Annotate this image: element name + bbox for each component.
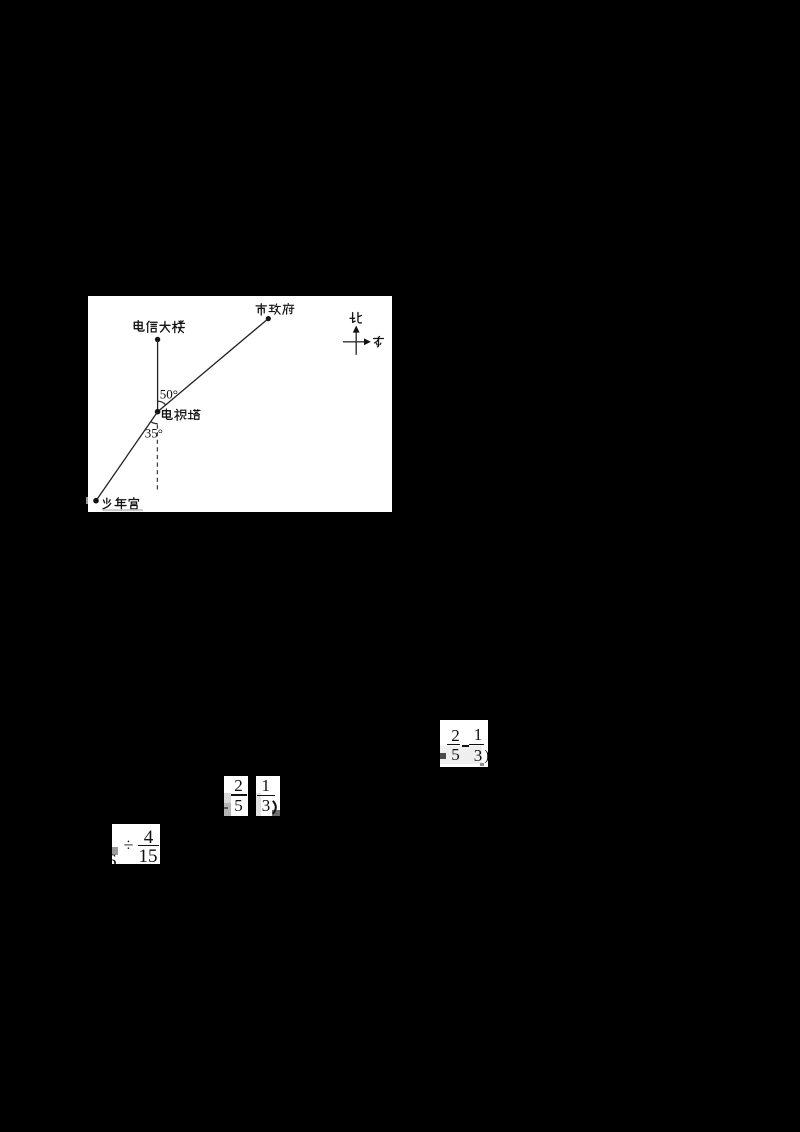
- denominator 5: [232, 797, 245, 814]
- wire vertical 电信大楼 to 电视塔: [157, 340, 159, 412]
- label 少年宫: [103, 498, 139, 510]
- node dot 市政府: [266, 316, 271, 321]
- minus sign: [462, 745, 469, 747]
- denominator 3: [260, 797, 273, 814]
- fraction bar: [231, 794, 247, 796]
- node dot 电信大楼: [155, 337, 160, 342]
- fraction box D: ÷ 4/15 bottom left: [112, 824, 160, 864]
- angle arc 50deg: [158, 401, 166, 405]
- numerator 1: [472, 726, 485, 743]
- dark mark left edge: [440, 753, 446, 759]
- faint underline below 少年宫: [103, 509, 143, 511]
- fraction bar: [138, 845, 159, 847]
- label 电视塔: [163, 409, 201, 420]
- compass north arrow: [353, 326, 360, 355]
- dashed south line below 电视塔: [156, 425, 158, 493]
- compass label 东: [374, 336, 384, 346]
- division sign: [122, 835, 136, 857]
- fraction bar 1/3: [469, 744, 485, 746]
- diagram panel (white): [88, 296, 392, 512]
- numerator 2: [449, 727, 462, 744]
- partial right paren: [272, 800, 280, 815]
- numerator 2: [232, 777, 245, 794]
- label 电信大楼: [134, 321, 184, 333]
- wire 电视塔 to 少年宫: [96, 412, 158, 501]
- gray square left: [112, 847, 118, 855]
- numerator 1: [259, 777, 272, 794]
- fraction box B: 2/5 middle: [224, 776, 248, 816]
- partial right paren: [484, 749, 489, 764]
- denominator 15: [138, 847, 158, 866]
- node dot 少年宫: [93, 498, 99, 504]
- fraction bar 2/5: [447, 744, 461, 746]
- dark gray block bottom right: [272, 810, 279, 817]
- wire 市政府 to 电视塔: [158, 319, 269, 412]
- label 市政府: [256, 303, 294, 315]
- compass label 北: [350, 312, 361, 322]
- angle arc 35deg: [151, 422, 158, 424]
- fraction bar: [257, 795, 275, 797]
- svg-text:50°: 50°: [160, 386, 178, 401]
- gray square bottom right: [480, 763, 484, 767]
- svg-text:35°: 35°: [145, 426, 163, 441]
- node dot 电视塔: [155, 409, 161, 415]
- light shading lower band: [440, 746, 482, 764]
- minus fragment left: [224, 807, 228, 809]
- denominator 3: [472, 747, 485, 764]
- fraction box A: (2/5 - 1/3) top right: [440, 720, 488, 767]
- fraction box C: 1/3 middle: [256, 776, 280, 816]
- denominator 5: [449, 746, 462, 763]
- partial glyph 6 at left: [107, 852, 117, 871]
- compass east arrow: [343, 338, 371, 345]
- left edge gray tick near 少年宫: [86, 497, 88, 504]
- numerator 4: [140, 828, 158, 847]
